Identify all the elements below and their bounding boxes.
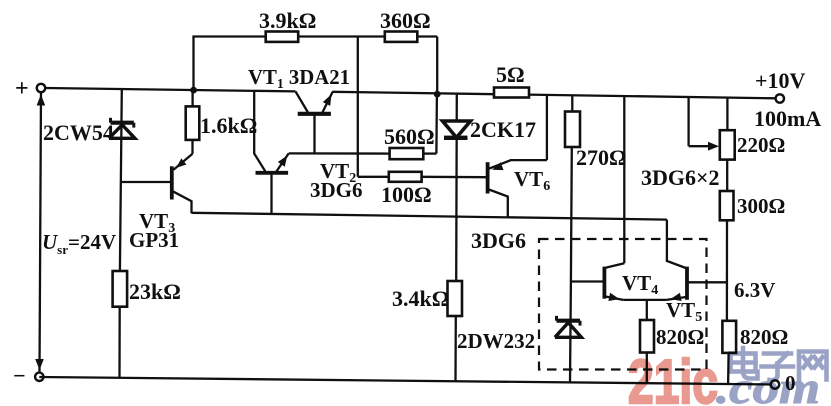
svg-text:6.3V: 6.3V [734,278,775,302]
wire: 560-ohm right lead and riser to rail junction [423,94,437,154]
svg-text:2CW54: 2CW54 [43,120,114,145]
component outline: dashed box around VT4/VT5 pair [539,239,707,370]
wire: VT3 base wire [121,181,170,183]
svg-text:560Ω: 560Ω [384,124,435,149]
resistor R1 3.9k [266,32,299,42]
wire: 270-ohm down to VT4 base junction [570,147,573,282]
svg-text:+: + [15,76,29,102]
svg-text:820Ω: 820Ω [656,325,704,349]
wire: VT4 base wire [571,280,603,282]
svg-text:VT1 3DA21: VT1 3DA21 [248,65,350,92]
transistor VT2 3DG6 [256,171,289,175]
wire: collector bus (VT3 collector to VT5 collector riser) [192,213,667,220]
svg-text:VT4: VT4 [622,271,658,298]
svg-text:360Ω: 360Ω [380,8,431,33]
resistor R8 5 (series pass) [494,88,529,98]
svg-text:Usr=24V: Usr=24V [42,230,116,257]
svg-text:820Ω: 820Ω [740,325,788,349]
svg-text:VT6: VT6 [514,167,550,194]
transistor VT4 3DG6 [603,267,607,299]
transistor VT6 3DG6 [486,162,490,193]
svg-text:3.9kΩ: 3.9kΩ [259,8,316,33]
wire: 23k resistor to bottom rail [118,307,120,378]
svg-text:5Ω: 5Ω [496,62,525,87]
wire: zener branch vertical (rail to 23k resistor) [120,90,122,272]
wire: 360-ohm right riser down to rail junction [417,37,438,95]
transistor VT5 3DG6 [685,267,689,300]
transistor VT1 3DA21 [296,91,309,112]
wire: bottom rail [39,377,775,385]
wire: VT5 collector riser from bus [667,220,686,268]
resistor R5 560 [390,148,424,159]
wire: between 3.9k and 360-ohm resistors [298,35,386,37]
decorative watermark (site logo) [628,348,827,406]
svg-text:21ic: 21ic [628,348,718,406]
svg-text:2DW232: 2DW232 [457,329,535,353]
wire: VT4 collector riser to top rail [623,96,625,263]
wire: top rail from 5-ohm resistor to +10V terminal [528,95,776,99]
svg-text:2CK17: 2CK17 [470,117,536,142]
svg-text:3.4kΩ: 3.4kΩ [392,286,449,311]
terminal - (input negative) [35,373,43,381]
wire: VT2 emitter / VT1 base junction wire to 560-ohm [289,152,391,155]
svg-text:+10V: +10V [755,68,806,93]
wire: 220 to 300 link [726,160,728,192]
terminal + (input positive) [37,84,45,92]
junction dot at 360-ohm/560-ohm tap on top rail [434,91,441,98]
wire: VT2 base riser from top rail [254,91,265,171]
terminal +10V output [776,94,784,102]
wire: diode branch vertical (rail through bus to 3.4k) [455,94,458,282]
resistor R3 23k [113,271,128,307]
resistor R9 270 [565,112,580,148]
wire: VT6 collector riser to top rail [510,95,547,160]
wire: 1.6k leads [191,90,193,154]
wire: 3.4k to bottom rail [454,316,457,381]
zener diode VD1 2CW54 [109,125,135,139]
svg-text:3DG6: 3DG6 [471,228,526,253]
svg-text:100mA: 100mA [754,106,821,131]
resistor R10 820 (left, inside box) [640,320,654,353]
wire: 100-ohm right lead to VT6 base [422,176,486,179]
resistor R2 360 [385,32,418,42]
svg-text:GP31: GP31 [129,228,179,252]
resistor R11 220 (rheostat) [720,130,735,159]
wire: top rail from VT1 emitter to 5-ohm resistor [332,92,495,94]
wire: left 820 leads [646,300,648,383]
svg-text:270Ω: 270Ω [576,145,627,170]
svg-text:−: − [13,363,26,388]
wire: mid riser from bias rail down to VT1 base junction and 100-ohm lead [358,37,391,177]
junction dot at 1.6k tap on top rail [190,87,197,94]
svg-text:1.6kΩ: 1.6kΩ [200,113,257,138]
wire: 220-ohm top lead [726,97,728,130]
wire: emitter bus VT4-VT5 [623,299,666,301]
resistor R4 1.6k [186,106,200,139]
resistor R12 300 [720,191,734,220]
wire: 270-ohm top lead [571,95,573,112]
svg-text:220Ω: 220Ω [737,133,785,157]
svg-text:3DG6×2: 3DG6×2 [641,165,720,190]
diode VD2 2CK17 [443,121,471,138]
svg-text:3DG6: 3DG6 [310,178,363,202]
resistor R6 100 [389,172,422,182]
wire: left source line with voltage arrows [40,93,42,372]
wire: rheostat wiper from top rail with arrow [689,97,708,146]
svg-text:100Ω: 100Ω [381,182,432,207]
wire: 300-ohm down through VT5 base junction to right 820 [726,220,728,321]
wire: right 820 to bottom rail [727,353,730,384]
resistor R7 3.4k [448,281,463,316]
svg-text:23kΩ: 23kΩ [129,279,181,304]
resistor R13 820 (right) [722,321,736,353]
zener diode VD3 2DW232 [555,323,582,338]
wire: riser from 1.6k tap up and over to 3.9k resistor [192,37,266,89]
wire: top rail from + to VT1 collector [45,88,296,91]
wire: zener branch from VT4 base junction to bottom rail [569,282,572,383]
transistor VT3 GP31 (PNP) [170,166,174,199]
svg-text:VT5: VT5 [666,298,702,325]
terminal 0 output [771,380,779,388]
svg-text:300Ω: 300Ω [737,194,785,218]
